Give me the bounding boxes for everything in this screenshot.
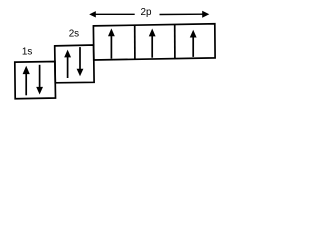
svg-text:2p: 2p [141,7,152,18]
orbital filling diagram [0,0,231,113]
electron down arrow in 2s [77,47,84,76]
orbital box 2s [55,45,94,83]
electron up arrow in 2p cell 2 [149,29,156,58]
2p span arrow right segment [160,11,210,18]
orbital box 1s [15,62,56,99]
electron up arrow in 2p cell 3 [190,30,197,57]
2p cell divider 2 [174,25,176,59]
2p cell divider 1 [134,25,136,59]
orbital box row 2p [93,24,215,60]
electron up arrow in 2p cell 1 [108,28,115,58]
svg-text:2s: 2s [69,29,79,40]
electron up arrow in 2s [64,50,71,78]
electron up arrow in 1s [23,66,30,96]
electron down arrow in 1s [36,65,43,95]
svg-text:1s: 1s [22,46,32,57]
2p span arrow left segment [89,11,135,17]
